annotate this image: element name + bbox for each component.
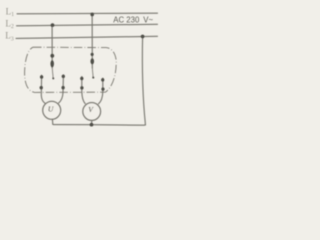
junction dot bottom rail at V lead bbox=[90, 123, 94, 127]
contact F terminal dots bbox=[101, 78, 104, 81]
contact F line into V bbox=[99, 78, 103, 104]
wiper tail pole 2 bbox=[91, 68, 94, 78]
contact D terminal dots bbox=[80, 77, 83, 80]
contact C line into U bbox=[59, 75, 64, 103]
instrument U circle bbox=[43, 101, 61, 119]
instrument U bottom lead bbox=[51, 119, 53, 124]
contact C terminal dots bbox=[62, 75, 65, 78]
enclosure dash-dot outline (selector switch) bbox=[25, 47, 117, 92]
svg-text:U: U bbox=[48, 105, 54, 114]
wire L2 line bbox=[17, 24, 158, 26]
instrument V bottom lead bbox=[91, 120, 93, 124]
contact D line into V bbox=[82, 77, 85, 104]
wire L3 line bbox=[16, 36, 158, 38]
wire pole 2 drop from L1 bbox=[91, 15, 93, 69]
contact A line into U bbox=[41, 75, 45, 103]
wire L3 drop to bottom rail bbox=[142, 36, 145, 125]
contact A terminal dots bbox=[40, 75, 43, 78]
wire L1 line bbox=[17, 12, 158, 15]
wiper tail pole 1 bbox=[52, 68, 53, 79]
instrument V circle bbox=[83, 103, 101, 121]
wire bottom rail bbox=[53, 124, 146, 125]
wire pole 1 drop from L2 bbox=[51, 25, 53, 68]
pole 2 pivot dots bbox=[91, 53, 94, 56]
junction dot on L1 at pole 2 bbox=[90, 13, 94, 17]
pole 1 pivot dots bbox=[50, 54, 54, 58]
junction dot on L3 at drop bbox=[141, 35, 145, 39]
svg-text:AC 230 V~: AC 230 V~ bbox=[113, 15, 153, 24]
junction dot on L2 at pole 1 bbox=[51, 23, 55, 27]
